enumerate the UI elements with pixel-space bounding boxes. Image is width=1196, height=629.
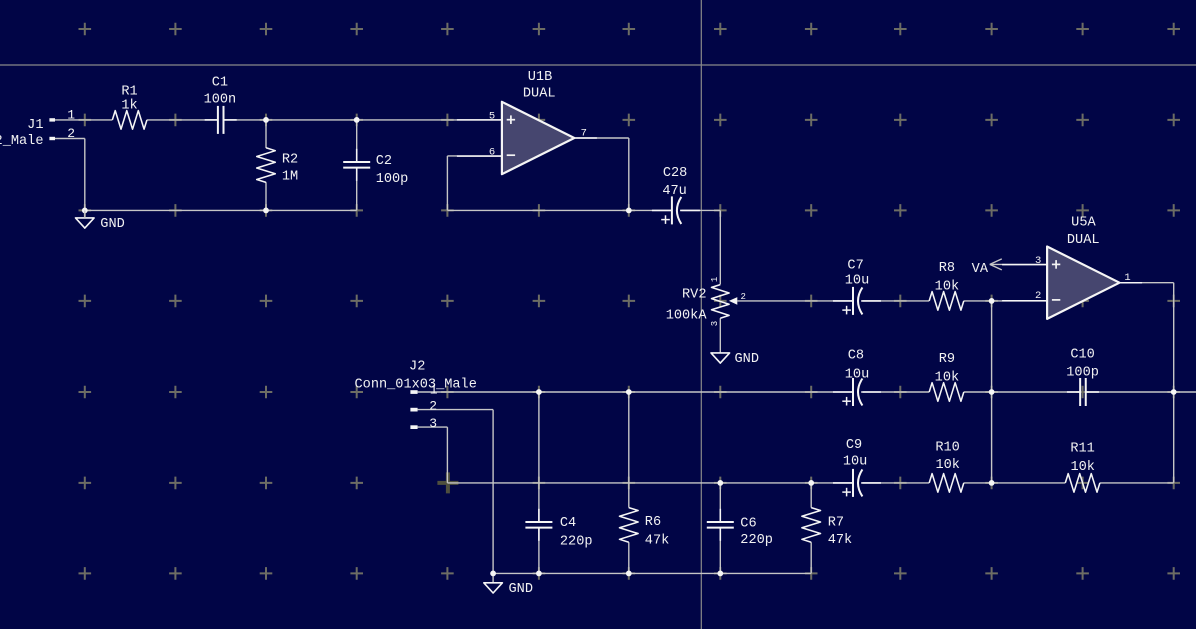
- wire: [492, 410, 494, 574]
- wire: [356, 168, 358, 210]
- junction C4 top: [536, 389, 542, 395]
- wire: [719, 318, 721, 353]
- junction J1 gnd: [82, 208, 88, 214]
- wire: [418, 409, 494, 411]
- connector J2: [355, 360, 477, 432]
- junction C6 bottom: [717, 571, 723, 577]
- wire: [85, 209, 357, 211]
- svg-text:Conn_01x03_Male: Conn_01x03_Male: [355, 378, 477, 393]
- junction feedback/R10: [989, 480, 995, 486]
- wire: [447, 209, 671, 211]
- wire: [147, 119, 218, 121]
- svg-text:1: 1: [1124, 272, 1130, 284]
- ground GND (J1): [76, 217, 125, 232]
- resistor R10: [929, 440, 964, 492]
- svg-text:7: 7: [581, 128, 587, 140]
- wire: [493, 572, 811, 574]
- svg-text:C2: C2: [376, 154, 392, 169]
- svg-text:47k: 47k: [828, 533, 852, 548]
- svg-text:DUAL: DUAL: [1067, 233, 1100, 248]
- wire: [356, 120, 358, 161]
- junction R8/U5A-: [989, 298, 995, 304]
- junction R6 top: [626, 389, 632, 395]
- svg-text:C1: C1: [212, 76, 228, 91]
- wire: [990, 263, 1047, 265]
- svg-text:1: 1: [430, 383, 438, 398]
- op-amp U1B: [457, 70, 597, 174]
- svg-text:VA: VA: [972, 262, 989, 277]
- svg-text:R10: R10: [935, 440, 959, 455]
- svg-text:Conn_01x02_Male: Conn_01x02_Male: [0, 134, 44, 149]
- svg-text:10k: 10k: [935, 280, 959, 295]
- capacitor C9 (polarized): [833, 438, 881, 497]
- wire: [447, 155, 501, 157]
- svg-text:DUAL: DUAL: [523, 86, 556, 101]
- wire: [810, 483, 812, 508]
- svg-text:100p: 100p: [376, 172, 409, 187]
- wire: [55, 138, 85, 140]
- resistor R6: [620, 508, 670, 549]
- wire: [492, 573, 494, 582]
- wire: [418, 426, 448, 428]
- wire: [964, 300, 1047, 302]
- resistor R1: [112, 84, 147, 129]
- svg-text:2: 2: [1035, 290, 1041, 302]
- wire: [55, 119, 113, 121]
- junction C2 node: [354, 117, 360, 123]
- svg-text:3: 3: [710, 321, 720, 326]
- wire: [628, 392, 630, 508]
- svg-text:47u: 47u: [662, 184, 686, 199]
- resistor R7: [802, 508, 852, 548]
- svg-text:C7: C7: [847, 259, 863, 274]
- wire: [1120, 282, 1174, 284]
- wire: [810, 542, 812, 573]
- svg-text:J2: J2: [409, 360, 425, 375]
- wire: [719, 529, 721, 574]
- svg-text:U1B: U1B: [528, 70, 552, 85]
- svg-text:100n: 100n: [204, 92, 237, 107]
- capacitor C4: [525, 509, 592, 550]
- wire: [265, 182, 267, 210]
- C28 plus mark: [661, 219, 670, 221]
- junction J2 gnd: [490, 571, 496, 577]
- wire: [719, 210, 721, 284]
- RV2 wiper arrow: [729, 297, 737, 305]
- net label VA: [972, 259, 1002, 277]
- svg-text:C4: C4: [560, 516, 576, 531]
- svg-text:GND: GND: [735, 352, 759, 367]
- junction C1/R2 node: [263, 117, 269, 123]
- capacitor C28 (polarized): [652, 166, 700, 224]
- svg-text:100kA: 100kA: [666, 309, 708, 324]
- wire: [265, 120, 267, 148]
- svg-text:2: 2: [740, 292, 745, 302]
- C9 plus mark: [842, 491, 851, 493]
- svg-text:R6: R6: [645, 515, 661, 530]
- svg-text:10k: 10k: [935, 371, 959, 386]
- wire: [446, 427, 448, 483]
- svg-text:1: 1: [710, 277, 720, 282]
- svg-text:2: 2: [429, 398, 437, 413]
- svg-text:R8: R8: [939, 261, 955, 276]
- svg-text:3: 3: [429, 416, 437, 431]
- ground GND (RV2): [711, 352, 759, 367]
- wire: [863, 482, 929, 484]
- svg-text:C6: C6: [740, 516, 756, 531]
- wire: [737, 300, 852, 302]
- svg-text:2: 2: [67, 126, 75, 141]
- wire: [84, 139, 86, 211]
- C8 plus mark: [842, 400, 851, 402]
- svg-text:1k: 1k: [121, 99, 137, 114]
- ground GND (J2): [484, 582, 533, 597]
- junction U1B out: [626, 208, 632, 214]
- svg-text:10u: 10u: [843, 455, 867, 470]
- svg-text:R2: R2: [282, 152, 298, 167]
- capacitor C8 (polarized): [833, 349, 881, 407]
- svg-text:1M: 1M: [282, 170, 298, 185]
- wire: [964, 391, 1080, 393]
- wire: [538, 529, 540, 574]
- svg-text:U5A: U5A: [1071, 216, 1096, 231]
- svg-text:C28: C28: [663, 166, 687, 181]
- junction C10 out: [1171, 389, 1177, 395]
- svg-text:R1: R1: [121, 84, 137, 99]
- junction feedback/C10: [989, 389, 995, 395]
- svg-text:5: 5: [489, 110, 495, 122]
- junction R2 gnd: [263, 208, 269, 214]
- wire: [964, 482, 1066, 484]
- wire: [628, 138, 630, 210]
- svg-text:R7: R7: [828, 516, 844, 531]
- wire: [863, 391, 929, 393]
- wire: [84, 210, 86, 218]
- svg-text:1: 1: [67, 107, 75, 122]
- capacitor C10: [1066, 347, 1099, 406]
- svg-text:R9: R9: [939, 352, 955, 367]
- svg-text:3: 3: [1035, 255, 1041, 267]
- resistor R8: [929, 261, 964, 310]
- svg-text:RV2: RV2: [682, 288, 706, 303]
- svg-text:C9: C9: [846, 438, 862, 453]
- potentiometer RV2: [666, 277, 746, 327]
- junction C4 bottom: [536, 571, 542, 577]
- svg-text:220p: 220p: [560, 534, 593, 549]
- wire: [1087, 391, 1196, 393]
- capacitor C1: [204, 76, 237, 134]
- svg-text:10k: 10k: [1070, 460, 1094, 475]
- wire: [418, 391, 853, 393]
- resistor R11: [1065, 442, 1100, 493]
- connector J1: [0, 107, 75, 149]
- svg-text:220p: 220p: [740, 533, 773, 548]
- wire: [224, 119, 501, 121]
- resistor R9: [929, 352, 964, 401]
- capacitor C6: [707, 509, 773, 548]
- wire: [682, 209, 721, 211]
- capacitor C7 (polarized): [833, 259, 881, 315]
- wire: [1173, 283, 1175, 483]
- junction R6 bottom: [626, 571, 632, 577]
- junction C6 top: [717, 480, 723, 486]
- svg-text:GND: GND: [100, 217, 124, 232]
- wire: [628, 542, 630, 573]
- svg-text:R11: R11: [1070, 442, 1094, 457]
- svg-text:100p: 100p: [1066, 366, 1099, 381]
- wire: [863, 300, 929, 302]
- wire: [1100, 482, 1174, 484]
- resistor R2: [257, 148, 299, 185]
- op-amp U5A: [1002, 216, 1142, 319]
- svg-text:C8: C8: [848, 349, 864, 364]
- junction R7 top: [808, 480, 814, 486]
- wire: [446, 156, 448, 211]
- svg-text:10k: 10k: [935, 458, 959, 473]
- svg-text:6: 6: [489, 146, 495, 158]
- capacitor C2: [343, 149, 408, 187]
- svg-text:10u: 10u: [845, 273, 869, 288]
- svg-text:GND: GND: [509, 582, 533, 597]
- wire: [719, 483, 721, 521]
- wire: [538, 392, 540, 521]
- wire: [991, 301, 993, 483]
- wire: [447, 482, 852, 484]
- wire: [574, 137, 629, 139]
- svg-text:J1: J1: [27, 118, 43, 133]
- C7 plus mark: [842, 309, 851, 311]
- svg-text:10u: 10u: [845, 367, 869, 382]
- svg-text:47k: 47k: [645, 533, 669, 548]
- svg-text:C10: C10: [1070, 347, 1094, 362]
